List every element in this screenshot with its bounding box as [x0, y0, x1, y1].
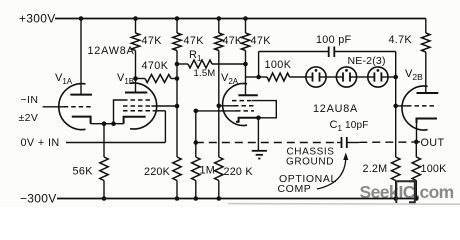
wire 470K right lead [171, 78, 177, 80]
resistor 4.7K [422, 33, 430, 52]
wire lamp1-lamp2 [326, 76, 336, 78]
svg-text:C1: C1 [330, 119, 343, 133]
wire chassis dashed right section [359, 141, 414, 143]
V2B grid dashed [407, 105, 437, 107]
junction dot top rail at 47K R4 [217, 16, 222, 21]
wire V1B screen to 47K R3 node [152, 105, 178, 107]
wire -300V bottom rail [57, 198, 417, 200]
junction dot R3/R1 node [175, 62, 180, 67]
scan artifact line bottom [228, 203, 460, 206]
svg-text:−IN: −IN [21, 94, 39, 106]
svg-text:47K: 47K [223, 35, 243, 47]
svg-text:220 K: 220 K [224, 166, 254, 178]
wire V2B plate lead [425, 52, 427, 93]
V1B plate bar [125, 92, 147, 94]
wire C1 right stub [348, 142, 360, 144]
wire 1M top lead [195, 111, 197, 157]
junction dot bottom rail 220K left [175, 196, 180, 201]
wire 220K left bottom lead [176, 181, 178, 199]
svg-text:V1A: V1A [55, 72, 73, 86]
wire lamp2-lamp3 [357, 76, 368, 78]
wire V2A screen stub [219, 105, 234, 107]
V1B grid g1 dashed [123, 110, 153, 112]
wire 47K R2 top lead [135, 19, 137, 34]
junction dot 100pF tap [256, 75, 261, 80]
svg-text:.com: .com [415, 182, 453, 202]
wire V2A g3 suppressor loop [252, 101, 276, 118]
resistor R5 47K [241, 33, 249, 51]
junction dot OUT node [414, 140, 419, 145]
svg-text:V1B: V1B [117, 72, 134, 86]
svg-text:−300V: −300V [20, 192, 57, 206]
wire 470K left lead [136, 78, 146, 80]
wire +300V top rail [55, 18, 426, 20]
V2A plate bar [238, 94, 257, 96]
capacitor C1 10pF [341, 137, 343, 148]
svg-text:+300V: +300V [19, 12, 56, 26]
svg-text:12AW8A: 12AW8A [88, 45, 135, 57]
junction dot cathode bus at 56K [102, 121, 107, 126]
junction dot top rail at 47K R5 [243, 16, 248, 21]
wire 220K right bottom lead [218, 181, 220, 199]
V1A plate bar [70, 94, 92, 96]
svg-text:470K: 470K [142, 60, 169, 72]
resistor 100K interstage [267, 73, 290, 81]
neon lamp NE-2 #3 [368, 67, 388, 87]
junction dot bottom rail 56K [102, 196, 107, 201]
junction dot R3/470K node [175, 76, 180, 81]
wire R3 node column [176, 51, 178, 158]
svg-text:100K: 100K [265, 59, 292, 71]
svg-text:220K: 220K [144, 166, 171, 178]
resistor 2.2M [392, 157, 400, 181]
svg-text:10pF: 10pF [345, 120, 369, 131]
V2A grid g2 dashed [234, 105, 254, 107]
svg-text:47K: 47K [184, 35, 205, 47]
wire 1M bottom lead [195, 181, 197, 199]
V1B grid g2 dashed [123, 105, 152, 107]
svg-text:47K: 47K [251, 35, 272, 47]
svg-text:56K: 56K [73, 165, 94, 177]
svg-text:GROUND: GROUND [286, 156, 334, 167]
svg-text:2.2M: 2.2M [363, 163, 388, 175]
wire 47K R5 top lead [245, 19, 247, 34]
capacitor 100pF [328, 47, 330, 58]
wire V1A plate lead [80, 19, 82, 95]
junction dot bottom rail 1M [194, 196, 199, 201]
svg-text:100 pF: 100 pF [316, 34, 352, 46]
V1B grid g3 dashed [123, 99, 150, 101]
junction dot screen line at R3 wire [175, 104, 180, 109]
wire 56K bottom lead [103, 181, 105, 199]
svg-text:4.7K: 4.7K [389, 34, 413, 46]
wire 0V+IN riser to V1B g1 [164, 111, 166, 143]
wire 0V+IN horizontal [66, 142, 165, 144]
wire top rail right corner [425, 19, 427, 34]
triode V2B envelope [402, 86, 428, 130]
wire 47K R4 top lead [218, 19, 220, 34]
resistor R3 47K [173, 33, 181, 51]
neon lamp NE-2 #1 [306, 67, 326, 87]
V2A grid g3 dashed [232, 100, 254, 102]
resistor R2 47K [131, 33, 139, 51]
wire R4 column to V2A screen [218, 51, 220, 158]
wire 100K left lead [259, 76, 267, 78]
junction dot bottom rail 100K out [414, 196, 419, 201]
wire 47K R3 top lead [176, 19, 178, 34]
junction dot 1M top [194, 109, 199, 114]
resistor 220K left [173, 157, 181, 181]
V2A cathode [236, 118, 258, 122]
pentode V1B envelope [130, 83, 157, 129]
V2B plate bar [417, 92, 439, 94]
resistor 220K right [215, 157, 223, 181]
watermark IC brackets [396, 181, 414, 203]
svg-text:COMP: COMP [278, 183, 312, 195]
wire V2A g1 to 1M [196, 110, 236, 112]
watermark SeekIC.com [360, 182, 454, 202]
svg-text:NE-2(3): NE-2(3) [348, 55, 386, 67]
svg-text:1M: 1M [200, 164, 215, 176]
wire 2.2M bottom lead [395, 181, 397, 199]
svg-text:V2B: V2B [405, 68, 423, 82]
svg-text:V2A: V2A [221, 72, 239, 86]
neon lamp NE-2 #2 [336, 67, 356, 87]
wire C1 left stub [337, 142, 341, 144]
junction dot cathode bus at V1B g3 [111, 121, 116, 126]
wire OUT stub [416, 141, 420, 143]
wire 100K out top lead [415, 142, 417, 157]
wire 100pF top right [335, 51, 396, 53]
wire -IN input to V1A grid [43, 106, 65, 108]
junction dot bottom rail 2.2M [393, 196, 398, 201]
resistor 1M [192, 157, 200, 181]
junction dot V2B grid node [393, 75, 398, 80]
wire V2B cathode to OUT [416, 119, 418, 142]
svg-text:100K: 100K [421, 163, 448, 175]
wire V2A plate lead [245, 51, 247, 96]
resistor 56K [100, 157, 108, 181]
wire lamp3 to V2B grid node [388, 76, 396, 78]
svg-text:1.5M: 1.5M [194, 68, 216, 79]
wire 100pF right drop [395, 52, 397, 78]
V2B cathode [417, 119, 438, 124]
resistor R1 1.5M [188, 60, 212, 68]
junction dot R1 at V2A plate wire [243, 62, 248, 67]
wire 100K out bottom lead [415, 181, 417, 199]
junction dot V1B plate / 470K [133, 76, 138, 81]
wire V2A cathode to chassis ground [257, 118, 259, 151]
svg-text:12AU8A: 12AU8A [313, 103, 358, 115]
V1A cathode [72, 117, 91, 124]
wire chassis dashed left section [196, 142, 337, 144]
resistor 100K output [412, 157, 420, 181]
V1B cathode [124, 117, 146, 124]
wire V2B grid column [395, 77, 397, 157]
wire V2B grid stub [396, 105, 407, 107]
svg-text:47K: 47K [142, 35, 163, 47]
junction dot chassis line start [194, 140, 199, 145]
svg-text:0V + IN: 0V + IN [21, 137, 60, 149]
wire 56K top lead [103, 124, 105, 157]
junction dot top rail at 47K R2 [133, 16, 138, 21]
wire V2A plate branch to 100K [246, 76, 259, 78]
V2A grid g1 dashed [236, 110, 254, 112]
wire 100pF left drop [258, 52, 260, 78]
junction dot top rail at V1A plate [79, 16, 84, 21]
arrow optional comp to C1 [317, 158, 346, 189]
ground symbol [252, 150, 267, 152]
junction dot V2A cathode [256, 116, 261, 121]
svg-text:R1: R1 [189, 49, 202, 63]
svg-text:±2V: ±2V [19, 112, 39, 124]
wire V1B g3 to cathode left drop [114, 100, 124, 124]
resistor R4 47K [215, 33, 223, 51]
V1A grid dashed [64, 106, 92, 108]
resistor 470K [145, 75, 171, 83]
triode V1A envelope [59, 84, 86, 130]
junction dot V2B grid stub [393, 104, 398, 109]
wire V1B plate lead [135, 51, 137, 93]
junction dot top rail at 47K R3 [175, 16, 180, 21]
junction dot bottom rail 220K right [217, 196, 222, 201]
junction dot R4 / V2A screen stub [217, 104, 222, 109]
wire 100pF top left [259, 51, 328, 53]
pentode V2A envelope [223, 84, 248, 126]
wire R1 right lead [212, 63, 246, 65]
wire V1B g1 to 0V riser [153, 110, 166, 112]
wire 100K right lead [290, 76, 306, 78]
wire V1A-V1B cathode bus [91, 123, 124, 125]
svg-text:OUT: OUT [421, 137, 445, 149]
wire R1 left lead [177, 63, 188, 65]
